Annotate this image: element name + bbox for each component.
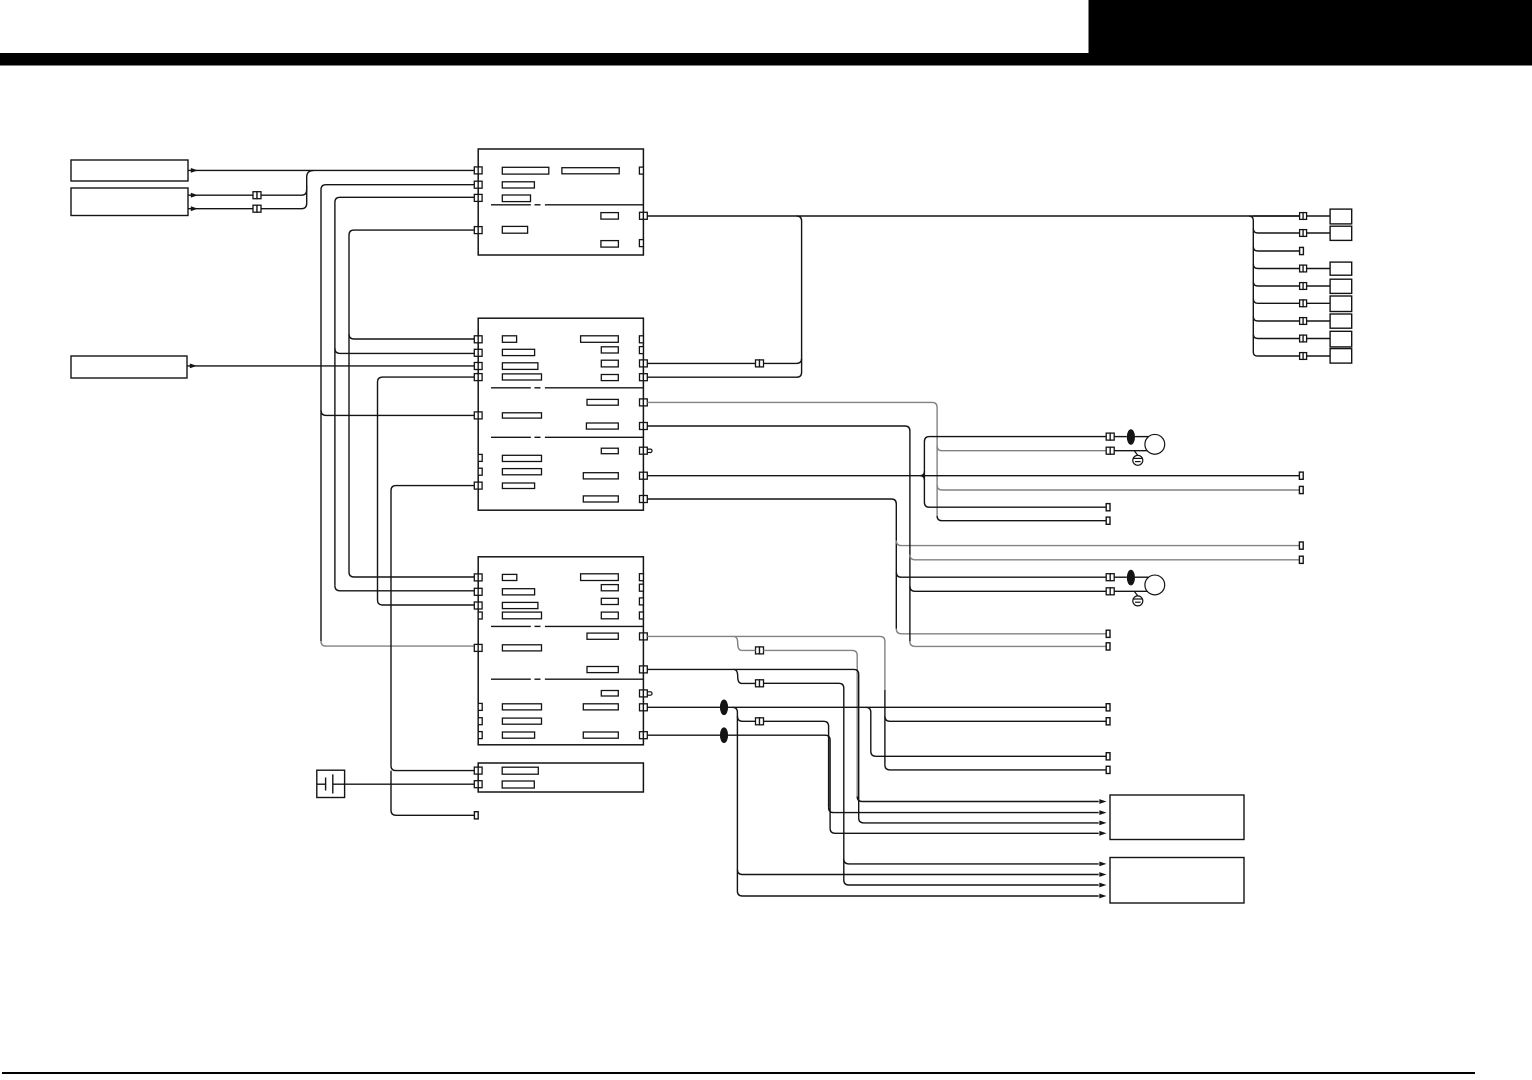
ladder rung 5 wire to jack (1307, 285, 1331, 287)
board B outline (478, 318, 643, 510)
board A left pin 1 (474, 167, 478, 174)
battery box (317, 770, 345, 797)
wire box2 line 2 with merge (188, 185, 307, 209)
ladder rung 4 takeoff (1253, 264, 1299, 269)
stub connector below board D (474, 812, 478, 819)
board C left pin L2 (474, 588, 478, 595)
antenna jack 1 group (1106, 433, 1110, 440)
stub connector i (1106, 753, 1110, 760)
board B right pin R6 (640, 472, 644, 479)
ferrite bead on pin R5 wire (720, 727, 728, 743)
board C IC 8 (601, 612, 618, 619)
branch gray long wire b (910, 555, 1300, 560)
board C IC 15 (502, 732, 534, 738)
board C left pin (no wire) d (478, 732, 482, 739)
gray net tail to stub wire (885, 765, 1106, 770)
board B left pin L5 (474, 412, 478, 419)
arrowhead E1-2 (1099, 810, 1106, 815)
board D outline (478, 763, 643, 792)
board C IC 16 (583, 704, 618, 710)
ladder rung 1 wire (1253, 215, 1299, 217)
ladder rung 4 wire to jack (1307, 268, 1331, 270)
jog branch of pin R2 net (734, 669, 755, 683)
board C IC 5 (581, 574, 619, 581)
ladder rung 3 end connector (1300, 247, 1304, 254)
board B right pin R4 (640, 423, 644, 430)
gray net branch to stub wire (885, 716, 1106, 721)
wire board A pin2 to connector ladder (647, 215, 1299, 217)
ferrite bead on pin R4 wire (720, 700, 728, 716)
page header black rule bar (0, 53, 1532, 66)
ladder rung 7 takeoff (1253, 317, 1299, 322)
gray jog wire to vertical (741, 650, 857, 796)
wire board C pin R4 long line (647, 706, 1106, 708)
board D left pin 2 (474, 781, 478, 788)
board B right pin R3 (gray net) (640, 399, 644, 406)
board B IC 6 (601, 347, 618, 353)
board B right pin R7 (640, 496, 644, 503)
board B left pin L2 (474, 349, 478, 356)
board C IC 6 (601, 585, 618, 591)
ladder rung 6 takeoff (1253, 299, 1299, 304)
connector on board B pin R1 wire (756, 360, 760, 367)
source box 1 (top left) (71, 160, 188, 181)
bus wire 3 branch to board B pin L1 (349, 334, 474, 339)
bottom page rule (2, 1072, 1475, 1074)
bus wire 5 vertical (391, 486, 474, 766)
board C divider 2 (491, 678, 531, 680)
ladder rung 5 connector (1300, 283, 1304, 290)
bus wire 3 tail to board C pin L1 (349, 572, 474, 577)
board C right pin (no wire) a (639, 574, 643, 581)
board B IC 8 (601, 375, 618, 381)
destination box E2 (1110, 858, 1244, 904)
ladder jack box 7 (1330, 314, 1352, 328)
wire branch down from board A net (647, 216, 801, 377)
ladder rung 1 wire to jack (1307, 215, 1331, 217)
bus wire 4 vertical (378, 377, 475, 605)
board A IC 6 (502, 226, 527, 233)
board C right pin R1 (gray net) (640, 633, 644, 640)
stub connector g (1106, 766, 1110, 773)
board B left pin L4 (474, 374, 478, 381)
stub connector f (1106, 718, 1110, 725)
bus wire 1 vertical (321, 185, 474, 641)
board C outline (478, 557, 643, 745)
wire box1 to board A pin 1 (188, 169, 474, 171)
battery plate short (325, 778, 327, 791)
junction curves at long-line tap (920, 471, 924, 480)
board B left pin (no wire) b (478, 468, 482, 475)
board B divider 1 (491, 387, 531, 389)
ladder jack box 2 (1330, 226, 1352, 240)
board C IC 17 (583, 732, 618, 738)
end connector gray long wire a (1299, 542, 1303, 549)
ladder rung 1 connector (1300, 213, 1304, 220)
board C IC 10 (502, 645, 541, 651)
ladder rung 9 wire to jack (1307, 355, 1331, 357)
wire board B pin R7 turning down (647, 499, 896, 629)
board B IC 4 (502, 374, 541, 380)
board A right pin 3 (no wire) (639, 240, 643, 247)
arrowhead E2-1 (1099, 862, 1106, 867)
board B divider 2 (491, 436, 531, 438)
ladder rung 2 wire to jack (1307, 232, 1331, 234)
arrow on box1 wire (191, 168, 198, 173)
board C right pin R4 (640, 704, 644, 711)
board A IC 3 (502, 182, 534, 188)
ladder rung 8 takeoff (1253, 334, 1299, 339)
board B IC 15 (502, 483, 534, 489)
board B left pin L6 (474, 482, 478, 489)
board B IC 17 (583, 496, 618, 502)
ladder rung 4 connector (1300, 265, 1304, 272)
board D IC 2 (502, 781, 534, 788)
ladder rung 3 takeoff (1253, 247, 1299, 252)
ladder rung 8 wire to jack (1307, 338, 1331, 340)
end connector long line (1299, 472, 1303, 479)
board B IC 16 (583, 473, 618, 479)
board A left pin 2 (474, 181, 478, 188)
board B right pin R2 (640, 374, 644, 381)
connector on gray jog wire (756, 647, 760, 654)
end connector gray long wire (1299, 486, 1303, 493)
board A outline (478, 149, 643, 255)
board B IC 11 (586, 423, 618, 429)
jog wire to vertical (764, 683, 844, 880)
ladder rung 5 takeoff (1253, 282, 1299, 287)
antenna 1 upper wire (929, 436, 1106, 438)
board B left pin L1 (474, 336, 478, 343)
board B IC 14 (502, 469, 541, 475)
jog vertical from pin R4 line (732, 707, 1098, 896)
ladder rung 9 wire (1257, 355, 1299, 357)
board C left pin L4 (gray net) (474, 644, 478, 651)
jog branch connector wire (737, 716, 755, 721)
board B right pin (no wire) a (639, 336, 643, 343)
destination box E1 (1110, 795, 1244, 840)
ladder rung 9 connector (1300, 353, 1304, 360)
ladder rung 7 wire to jack (1307, 320, 1331, 322)
bus wire 3 vertical (349, 230, 474, 572)
board A IC 2 (562, 168, 619, 174)
wire board B pin R4 turning down (647, 426, 910, 641)
arrow wire E1-3 (859, 818, 1099, 823)
bus wire 1 branch to board B pin L5 (321, 410, 474, 415)
net vertical to antenna 1 upper wire (924, 437, 1106, 508)
board C right pin (no wire) d (639, 612, 643, 619)
arrow wire E1-1 (857, 797, 1098, 802)
board C right pin R2 (640, 666, 644, 673)
board A IC 1 (502, 167, 549, 174)
ladder jack box 1 (1330, 209, 1352, 224)
wire battery to board D pin 2 (333, 783, 475, 785)
arrowhead E2-3 (1099, 883, 1106, 888)
gray net wire from board B pin R3 (647, 402, 937, 515)
board C divider 1 (491, 625, 531, 627)
source box 2 (71, 188, 188, 216)
page header black title block (top right) (1089, 0, 1532, 65)
board C pin R1 net vertical lower (884, 690, 886, 765)
arrowhead E2-2 (1099, 872, 1106, 877)
connector on box2 line 1 (253, 192, 257, 199)
stub connector e (1106, 643, 1110, 650)
wire board C pin R5 (647, 735, 830, 828)
arrow wire E2-3 (844, 880, 1099, 885)
board A IC 4 (502, 195, 530, 202)
tail to stub d (896, 629, 1106, 634)
board C IC 3 (502, 602, 538, 608)
board C right pin (no wire) c (639, 598, 643, 605)
branch down from pin R4 line (866, 707, 1106, 756)
ladder rung 8 connector (1300, 335, 1304, 342)
board C IC 7 (601, 598, 618, 604)
ladder rung 2 connector (1300, 230, 1304, 237)
ladder rung 6 wire to jack (1307, 302, 1331, 304)
board B IC 9 (587, 399, 618, 405)
arrow wire E2-1 (844, 859, 1099, 864)
tail to stub e (910, 641, 1106, 646)
board A IC 5 (601, 213, 619, 220)
battery internal lead (317, 783, 326, 785)
board B IC 10 (502, 413, 541, 418)
board B IC 7 (601, 360, 618, 367)
arrow wire E1-2 (829, 808, 1099, 813)
connector on jog wire (756, 680, 760, 687)
stub connector antenna net (1106, 504, 1110, 511)
stub connector d (1106, 630, 1110, 637)
ladder jack box 8 (1330, 331, 1352, 347)
bus wire 5 branch to board D pin 1 (391, 766, 474, 771)
ladder jack box 6 (1330, 296, 1352, 312)
board A left pin 4 (474, 227, 478, 234)
gray net jog branch (734, 636, 741, 650)
branch antenna 2 upper wire (896, 572, 1106, 577)
stub connector gray net tail (1106, 517, 1110, 524)
bus wire 2 vertical (335, 197, 474, 586)
ladder jack box 4 (1330, 262, 1352, 275)
connector on pin R4 jog wire (756, 718, 760, 725)
ladder bus vertical (1249, 216, 1257, 356)
arrow wire E2-2 (737, 870, 1098, 875)
wire board B pin R1 into branch (647, 358, 801, 363)
board B IC 2 (502, 349, 534, 355)
wire box2 line 1 with merge (188, 171, 313, 196)
board C left pin L1 (474, 574, 478, 581)
board C left pin L3 (474, 602, 478, 609)
arrowhead E2-4 (1099, 894, 1106, 899)
board B right pin R1 (640, 360, 644, 367)
board C plug curl (647, 692, 652, 695)
board D left pin 1 (474, 767, 478, 774)
ladder rung 2 takeoff (1253, 229, 1299, 234)
board A IC 7 (601, 241, 619, 248)
source box 3 (71, 356, 187, 378)
board B left pin (no wire) a (478, 454, 482, 461)
end connector gray long wire b (1299, 556, 1303, 563)
board C IC 1 (502, 574, 516, 580)
wire board B pin R6 long line right (647, 475, 1299, 477)
board B IC 12 (601, 448, 618, 454)
ladder rung 7 connector (1300, 318, 1304, 325)
jog wire to vertical b (764, 721, 829, 807)
board C IC 13 (502, 704, 541, 710)
arrow on box3 wire (190, 364, 197, 369)
board C right pin R5 (640, 732, 644, 739)
antenna jack 2 group (1106, 574, 1110, 581)
board A right pin 1 (no wire) (639, 167, 643, 174)
board C left pin (no wire) c (478, 718, 482, 725)
board D IC 1 (502, 767, 538, 774)
board C right pin (no wire) b (639, 584, 643, 591)
board C IC 4 (502, 612, 541, 619)
bus wire 5 tail to stub connector (391, 771, 474, 816)
gray net branch to antenna 1 lower wire (937, 446, 1106, 451)
board C right pin R3 with plug curl (640, 690, 644, 697)
board C IC 14 (502, 718, 541, 724)
wire board C pin R2 (647, 669, 858, 818)
board B IC 3 (502, 363, 538, 370)
bus wire 2 branch to board B pin L2 (335, 348, 474, 353)
board A left pin 3 (474, 194, 478, 201)
board B left pin L3 (474, 363, 478, 370)
bus wire 1 tail to board C pin L4 (gray) (321, 641, 474, 646)
branch gray long wire a (896, 541, 1299, 546)
board B right pin (no wire) b (639, 347, 643, 354)
arrow wire E1-4 (830, 828, 1099, 833)
stub connector h (1106, 704, 1110, 711)
board A divider (491, 204, 531, 206)
connector on box2 line 2 (253, 205, 257, 212)
gray net branch long wire right (937, 485, 1299, 490)
wire box3 to board B pin L3 (187, 365, 474, 367)
arrow on box2 line 2 (191, 206, 198, 211)
gray net tail to stub (937, 516, 1106, 521)
arrowhead E1-3 (1099, 821, 1106, 826)
arrowhead E1-1 (1099, 799, 1106, 804)
board B IC 5 (581, 336, 619, 343)
board B IC 1 (502, 336, 516, 343)
arrowhead E1-4 (1099, 831, 1106, 836)
arrow on box2 line 1 (191, 193, 198, 198)
board B right pin R5 with plug curl (640, 447, 644, 454)
board B plug curl (647, 449, 652, 452)
board C IC 11 (587, 667, 618, 673)
battery plate long (332, 774, 334, 793)
board C IC 9 (587, 633, 618, 639)
branch antenna 2 lower wire (910, 586, 1106, 591)
board C left pin (no wire) b (478, 703, 482, 710)
board B IC 13 (502, 455, 541, 461)
board A right pin 2 (640, 212, 644, 219)
gray wire board C pin R1 (647, 636, 885, 690)
ladder rung 6 connector (1300, 300, 1304, 307)
board C IC 2 (502, 589, 534, 595)
board C IC 12 (601, 691, 618, 697)
board C left pin (no wire) a (478, 612, 482, 619)
ladder jack box 9 (1330, 349, 1352, 364)
bus wire 2 tail to board C pin L2 (335, 586, 474, 591)
ladder jack box 5 (1330, 279, 1352, 293)
